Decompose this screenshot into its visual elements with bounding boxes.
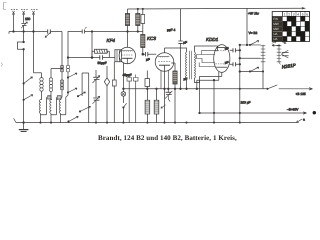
lamp La	[121, 89, 126, 103]
coil L4 lower	[60, 80, 63, 100]
coil L10 with core rail	[59, 97, 66, 122]
diamond element	[104, 66, 109, 123]
antenna bus wire	[9, 31, 47, 33]
wire v199	[199, 76, 201, 113]
capacitor C6 output	[230, 48, 240, 52]
wire C1 to corner	[51, 31, 62, 33]
scan margin mark left-mid	[1, 63, 3, 67]
node R6 rail	[147, 88, 149, 90]
node 199-113	[199, 112, 201, 114]
hatched resistor R7	[145, 89, 150, 123]
node E	[33, 31, 35, 33]
arrow below table	[272, 44, 280, 46]
node bus 214	[213, 122, 214, 123]
trimmer C8	[93, 70, 100, 98]
svg-text:45µµF: 45µµF	[123, 73, 132, 77]
wire jog to bus (earth line)	[23, 49, 25, 122]
wire T1 secondary bottom	[195, 78, 200, 83]
svg-text:KC3: KC3	[147, 36, 156, 41]
node 247	[246, 44, 248, 46]
wire tank to grid node	[68, 57, 92, 59]
capacitor C4 coupling	[143, 52, 151, 56]
wire HT rail vertical	[239, 45, 241, 123]
node 214 top	[213, 79, 215, 81]
svg-text:µF: µF	[225, 46, 229, 50]
node rail start	[123, 88, 125, 90]
wire v214	[213, 80, 215, 122]
node A1	[13, 31, 15, 33]
svg-text:100 µF: 100 µF	[241, 100, 251, 104]
coil L3	[49, 69, 62, 100]
capacitor C3 grid	[92, 55, 109, 59]
choke L6 ladder	[261, 45, 266, 72]
node C7 rail	[239, 64, 241, 66]
wire E corner to coil L2	[34, 72, 42, 74]
svg-text:6: 6	[306, 12, 308, 16]
svg-text:FW: FW	[273, 17, 278, 21]
node bus 175	[174, 122, 175, 123]
capacitor C5 on HT drop	[178, 9, 182, 89]
switch S4b arm	[69, 116, 79, 121]
node grid tap	[91, 31, 93, 33]
trimmer capacitor 150	[21, 22, 27, 28]
svg-text:µF: µF	[225, 60, 229, 64]
ground symbol	[14, 118, 29, 131]
coil L8 with core rail	[39, 97, 46, 122]
svg-text:µµF 4: µµF 4	[167, 28, 176, 32]
tube V2 KC3 envelope	[155, 48, 174, 71]
wire jog bracket	[18, 42, 24, 49]
resistor R6 under tube1	[145, 71, 150, 89]
wire C2 to resistor drop	[85, 31, 143, 33]
node R5 bottom	[174, 88, 176, 90]
table row labels	[273, 17, 279, 41]
ground bus	[16, 122, 297, 124]
resistor R4 KC3 grid	[141, 32, 145, 55]
svg-text:N281P: N281P	[281, 63, 297, 70]
switch S1 arm	[24, 77, 33, 84]
switch S3b arm	[78, 92, 86, 96]
node R3 wire31	[137, 31, 139, 33]
node A2	[23, 31, 25, 33]
antenna terminal E	[31, 10, 38, 15]
stub boxes under tube1	[127, 75, 138, 123]
node bus 180	[180, 88, 182, 90]
svg-text:4: 4	[297, 12, 299, 16]
scan margin mark top-left	[4, 3, 7, 10]
speaker magnet arrows	[272, 42, 286, 44]
switch S3 arm	[68, 88, 77, 93]
coil L9 with core rail	[50, 97, 57, 122]
svg-text:MW: MW	[273, 22, 279, 26]
tube3 bottom wires	[197, 76, 222, 80]
coil L4 upper	[60, 65, 63, 90]
resistor R5 anode KC3	[171, 63, 177, 123]
trimmer C9	[93, 96, 100, 122]
wire y71 arrow	[240, 67, 263, 71]
top bus arrowhead	[302, 7, 307, 10]
wire bus drop 247	[246, 8, 248, 44]
switch chart table frame	[272, 12, 309, 42]
wire R2 bottom to tube1	[127, 26, 129, 48]
antenna terminal A2	[21, 10, 28, 15]
table label cells dark	[273, 17, 283, 42]
node bus 240	[239, 122, 240, 123]
svg-text:–B+90V: –B+90V	[287, 107, 299, 111]
svg-text:2: 2	[288, 12, 290, 16]
wire R3 bottom	[137, 26, 139, 32]
node tank grid	[67, 57, 69, 59]
wire A2 down to trimmer	[23, 15, 25, 23]
node C10 rail	[168, 88, 170, 90]
capacitor C1 antenna series (variable)	[45, 29, 51, 37]
node jog top	[23, 41, 25, 43]
node grid RC left	[91, 57, 93, 59]
tube V1 electrode box	[115, 50, 122, 62]
bus end arrow	[297, 119, 303, 123]
node y58	[239, 57, 241, 59]
wire E down to bus	[33, 15, 35, 32]
svg-text:MW: MW	[273, 27, 279, 31]
wire tube2 anode to transformer primary	[165, 48, 187, 52]
svg-text:3: 3	[293, 12, 295, 16]
wire grid tap down	[91, 32, 93, 58]
node bus 147	[147, 122, 148, 123]
tube V1 KF4 envelope	[119, 47, 135, 63]
table header digits	[284, 12, 309, 16]
hatched resistor R8	[154, 89, 159, 123]
switch S7 battery	[268, 85, 278, 89]
node diamond bus	[106, 122, 107, 123]
capacitor C7 output	[230, 62, 240, 66]
svg-text:µF: µF	[146, 58, 150, 62]
speaker armature	[281, 50, 288, 58]
wire to tube2 grid	[151, 53, 157, 55]
node T1 bottom	[186, 88, 188, 90]
wire T1 primary bottom	[186, 78, 188, 89]
wire RC to tube1	[109, 57, 115, 59]
resistor R1 grid leak box	[92, 49, 109, 57]
wire to +B arrow	[279, 88, 313, 90]
svg-text:1: 1	[284, 12, 286, 16]
wire E branch down	[33, 32, 35, 73]
wire tank riser	[68, 32, 82, 66]
svg-text:50µµF: 50µµF	[98, 61, 107, 65]
wire tube1 cathode drop	[122, 63, 124, 89]
coil L5	[66, 65, 70, 97]
node tube2 rail	[164, 88, 166, 90]
speaker winding L7 ladder	[277, 44, 282, 65]
wire y58 to choke	[240, 57, 261, 59]
tube2 cathode drops	[161, 71, 168, 89]
svg-text:µF: µF	[183, 41, 187, 45]
wire choke bottom	[262, 72, 264, 89]
svg-text:+W Uhr: +W Uhr	[248, 12, 260, 16]
wire v196	[196, 80, 198, 89]
terminal dot	[313, 111, 316, 114]
node 196 rail	[196, 88, 198, 90]
transformer T1	[186, 51, 196, 79]
switch S5 lamp	[123, 103, 126, 107]
node C6 rail	[239, 50, 241, 52]
node y71	[239, 71, 241, 73]
top supply bus	[128, 7, 304, 10]
switch S6 arrow	[240, 41, 261, 45]
node gnd	[23, 122, 25, 124]
resistor R2 anode (vertical)	[125, 14, 129, 26]
node 240-113	[239, 112, 240, 113]
node R2 wire31	[127, 31, 129, 33]
switch S2 arm	[68, 73, 77, 78]
svg-text:+B 135: +B 135	[296, 92, 306, 96]
table header cell	[283, 12, 310, 17]
node bus 164.5	[164, 122, 165, 123]
svg-text:5: 5	[302, 12, 304, 16]
coil L2	[40, 73, 43, 100]
wire rail y113	[200, 112, 307, 114]
trimmer C10 under tube2	[165, 89, 173, 102]
svg-text:µF: µF	[184, 77, 188, 81]
wire R2 top to bus	[127, 9, 129, 14]
wire trimmer to bus	[23, 26, 25, 32]
resistor R3 screen (vertical)	[136, 14, 140, 26]
svg-text:KF4: KF4	[107, 38, 116, 43]
wire R3 top to bus	[137, 9, 139, 14]
node R8 rail	[156, 88, 158, 90]
switch S4 arm	[80, 106, 91, 111]
node L2 bus	[40, 122, 41, 123]
wire corner down to coil L4	[61, 32, 63, 66]
node bus 186	[186, 122, 187, 123]
bus left corner stub	[8, 32, 10, 34]
node bus 125.8	[123, 122, 124, 123]
tube V3 KDD1 envelope	[214, 45, 230, 81]
wire contact col 88.7	[88, 73, 90, 123]
capacitor C2 grid coupling	[82, 27, 86, 34]
svg-text:KDD1: KDD1	[206, 37, 219, 42]
node coupling	[142, 53, 144, 55]
node jog bottom	[23, 49, 25, 51]
value box L3	[48, 96, 51, 99]
resistor R9 stub box	[112, 62, 116, 123]
antenna terminal A1	[11, 10, 18, 15]
switch S1b arm	[24, 95, 33, 100]
node 214-113	[213, 112, 214, 113]
wire T1 secondary top loop	[195, 46, 218, 52]
resistor R4a top stub	[141, 9, 145, 31]
node rail top	[239, 44, 241, 46]
node 240 rail89	[239, 88, 240, 89]
table inner grid	[272, 12, 309, 42]
pointer arrow at R8	[161, 105, 166, 108]
wire y76 link	[82, 72, 89, 74]
svg-text:V= B2: V= B2	[249, 31, 258, 35]
svg-text:150: 150	[25, 17, 31, 21]
node L8 bus	[50, 122, 51, 123]
node C9 bus	[95, 122, 96, 123]
wire long rail y89	[123, 88, 267, 90]
node bus 142.8	[142, 8, 143, 9]
wire A2 line down	[23, 32, 25, 43]
node bus 137.8	[137, 8, 138, 9]
tube V3 grid feed wires	[197, 51, 216, 67]
wire A1 down	[13, 15, 15, 32]
svg-text:a: a	[303, 118, 305, 122]
wire contact col 82	[81, 73, 83, 96]
node L3 top	[61, 68, 62, 69]
caption	[98, 134, 237, 142]
table black cells	[283, 16, 310, 41]
value box L4	[57, 96, 61, 100]
